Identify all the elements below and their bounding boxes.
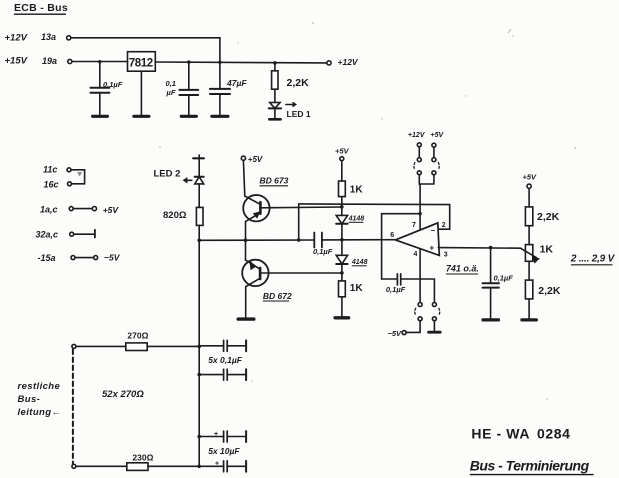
svg-text:−5V: −5V: [388, 329, 403, 338]
svg-text:−5V: −5V: [104, 252, 121, 262]
svg-text:6: 6: [390, 232, 394, 239]
svg-text:4148: 4148: [351, 259, 368, 266]
svg-text:741 o.ä.: 741 o.ä.: [446, 264, 479, 274]
svg-text:−: −: [431, 226, 436, 235]
svg-text:5x 0,1µF: 5x 0,1µF: [208, 355, 243, 365]
svg-text:+12V: +12V: [408, 132, 426, 139]
svg-text:+5V: +5V: [103, 205, 120, 215]
svg-text:+5V: +5V: [335, 147, 350, 156]
svg-text:+: +: [215, 461, 219, 468]
svg-text:4: 4: [414, 251, 418, 258]
svg-text:270Ω: 270Ω: [127, 331, 148, 341]
svg-text:230Ω: 230Ω: [132, 453, 153, 463]
svg-text:0,1µF: 0,1µF: [103, 80, 123, 89]
svg-text:+5V: +5V: [248, 155, 263, 164]
svg-text:+: +: [430, 244, 435, 253]
svg-text:1a,c: 1a,c: [40, 205, 58, 215]
svg-text:3: 3: [444, 251, 448, 258]
svg-text:+15V: +15V: [5, 56, 28, 67]
svg-text:52x 270Ω: 52x 270Ω: [102, 389, 144, 400]
svg-text:16c: 16c: [44, 180, 59, 190]
svg-text:19a: 19a: [42, 56, 57, 66]
svg-text:BD 672: BD 672: [263, 291, 292, 301]
svg-text:HE - WA: HE - WA: [471, 426, 530, 442]
svg-text:LED 2: LED 2: [154, 169, 181, 180]
svg-text:32a,c: 32a,c: [36, 230, 59, 240]
svg-text:ECB - Bus: ECB - Bus: [14, 2, 68, 14]
svg-text:+12V: +12V: [5, 33, 28, 44]
svg-text:1K: 1K: [350, 184, 364, 195]
svg-text:restliche: restliche: [18, 381, 61, 392]
svg-text:0,1: 0,1: [166, 79, 176, 88]
svg-text:0,1µF: 0,1µF: [386, 285, 406, 294]
svg-text:+: +: [214, 431, 218, 438]
svg-text:5x 10µF: 5x 10µF: [208, 446, 240, 456]
svg-text:820Ω: 820Ω: [163, 210, 187, 221]
svg-text:2,2K: 2,2K: [537, 211, 560, 223]
svg-text:2,2K: 2,2K: [538, 285, 561, 297]
svg-text:4148: 4148: [348, 216, 365, 223]
svg-text:leitung←: leitung←: [18, 407, 62, 418]
svg-text:13a: 13a: [41, 32, 56, 42]
svg-text:11c: 11c: [43, 165, 57, 175]
svg-text:7: 7: [412, 222, 416, 229]
svg-text:+5V: +5V: [523, 173, 538, 182]
svg-text:1K: 1K: [350, 283, 364, 294]
svg-text:-15a: -15a: [38, 253, 56, 263]
svg-text:BD 673: BD 673: [260, 176, 289, 186]
svg-text:0,1µF: 0,1µF: [494, 274, 514, 283]
svg-text:µF: µF: [166, 88, 176, 97]
svg-text:0,1µF: 0,1µF: [313, 247, 333, 256]
svg-text:Bus-: Bus-: [18, 394, 41, 405]
svg-text:Bus - Terminierung: Bus - Terminierung: [470, 458, 590, 474]
svg-text:+5V: +5V: [431, 132, 445, 139]
svg-text:+12V: +12V: [338, 57, 359, 67]
svg-text:2,2K: 2,2K: [287, 77, 310, 89]
svg-text:0284: 0284: [537, 426, 571, 442]
svg-text:47µF: 47µF: [226, 78, 247, 88]
svg-text:1K: 1K: [540, 244, 554, 256]
svg-text:LED 1: LED 1: [287, 109, 311, 119]
svg-text:2 .... 2,9 V: 2 .... 2,9 V: [570, 254, 616, 265]
svg-text:2: 2: [442, 222, 446, 229]
svg-text:7812: 7812: [129, 58, 153, 70]
